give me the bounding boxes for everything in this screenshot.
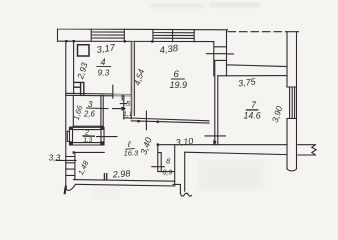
room 6 door jamb tick: [145, 111, 147, 130]
loggia bottom: [227, 65, 288, 67]
room 2 door leader: [97, 136, 118, 138]
svg-text:3,3: 3,3: [49, 153, 61, 163]
loggia right tick: [287, 31, 299, 33]
faint watermark blobs: [198, 160, 264, 190]
door jamb tick room4: [112, 85, 114, 98]
ladder wall strip top-right: [214, 30, 227, 76]
right window block: [287, 87, 297, 119]
room 7 top wall: [218, 75, 287, 77]
left wall curl bottom: [66, 185, 75, 190]
bottom wall double: [74, 180, 175, 186]
right inner wall upper: [286, 32, 288, 87]
room 4/6 divider wall: [131, 41, 134, 118]
room 2 left niche: [67, 131, 69, 141]
vestibule top wall: [74, 151, 105, 153]
room 8 leader: [152, 166, 165, 168]
balcony rail hatch B: [153, 30, 194, 42]
3,10 tick: [213, 140, 215, 144]
cross vertical bar bottom: [287, 145, 297, 169]
svg-text:4: 4: [101, 57, 106, 67]
balcony top line: [58, 29, 228, 41]
room 4 left inner wall: [73, 41, 75, 93]
hall south wall upper line: [158, 144, 287, 146]
loggia top-right dashed: [228, 31, 287, 33]
faint header smudge: [150, 5, 205, 8]
room 6/7 divider wall: [215, 61, 218, 145]
top wall: [58, 40, 214, 42]
cross right arm: [298, 145, 316, 155]
svg-text:2,6: 2,6: [83, 110, 96, 119]
room 2 box: [70, 127, 105, 145]
closet 5 leader: [120, 103, 126, 105]
room 3 bottom wall: [73, 125, 103, 127]
balcony rail hatch A: [91, 29, 124, 41]
room 3 left wall: [72, 95, 74, 126]
wall junction dots top: [65, 40, 153, 43]
3,3 leader: [56, 159, 76, 161]
room 4 bottom wall: [66, 93, 113, 96]
room 3 right / hall wall: [101, 95, 103, 127]
right inner wall lower: [286, 119, 288, 145]
entrance door ticks: [104, 174, 106, 180]
svg-text:2,98: 2,98: [111, 168, 130, 179]
svg-text:19.9: 19.9: [170, 80, 188, 90]
wall stub below room 4 wall: [121, 95, 123, 100]
hall south wall lower line: [185, 152, 287, 154]
svg-text:9.3: 9.3: [98, 68, 110, 78]
room 4 duct box: [74, 82, 84, 95]
step break squiggle: [180, 193, 191, 196]
left outer wall: [65, 41, 67, 186]
room 8 box: [158, 145, 175, 185]
svg-text:1,1: 1,1: [123, 111, 132, 118]
svg-text:0,9: 0,9: [163, 170, 173, 177]
room 6 bottom wall: [124, 118, 209, 123]
sill stubs: [207, 53, 234, 55]
svg-text:16.3: 16.3: [124, 149, 139, 158]
right outer wall: [296, 32, 298, 145]
room 4 vent square: [78, 45, 90, 56]
vestibule inner wall w rungs: [66, 154, 75, 180]
entrance step: [173, 152, 185, 193]
room 7 door tick: [205, 135, 226, 137]
room 2 corner dots: [70, 127, 104, 154]
svg-text:14.6: 14.6: [244, 110, 261, 120]
closet 5 door arrow: [113, 107, 126, 110]
svg-text:3,10: 3,10: [175, 136, 193, 147]
closet 5 left wall: [123, 96, 125, 119]
svg-text:1,3: 1,3: [84, 137, 93, 144]
svg-text:6: 6: [174, 69, 180, 80]
